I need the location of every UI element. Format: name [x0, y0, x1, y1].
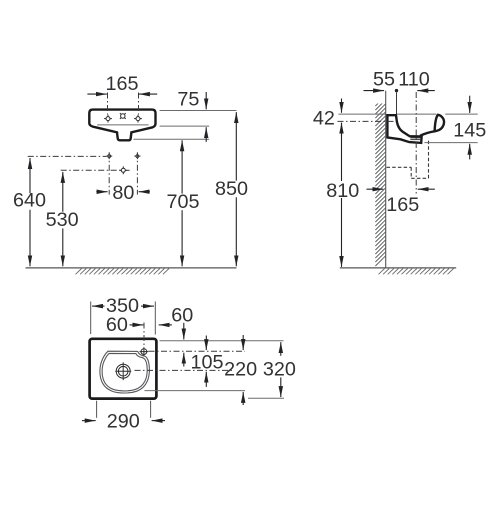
tap hole symbol: [140, 347, 149, 356]
floor line side: [340, 267, 456, 269]
tap vertical dash-dot: [143, 323, 145, 348]
tap axis dash-dot right: [149, 350, 246, 352]
bowl outer contour: [100, 351, 149, 393]
dim 80 arrows: [96, 191, 107, 193]
bottom ref line 320: [248, 397, 284, 399]
dim 165 side arrows: [367, 188, 384, 190]
top ref line segments: [338, 113, 385, 115]
drain flange lines: [410, 137, 420, 139]
dash-dot 640 level: [28, 155, 107, 157]
dim 290 arrows: [82, 420, 96, 422]
svg-text:290: 290: [107, 411, 140, 433]
fixing cross left: [106, 153, 112, 159]
dim 810 line: [341, 123, 343, 181]
dim 42 arrows: [341, 99, 343, 113]
dim 705 line: [181, 140, 183, 193]
floor hatch front: [76, 269, 170, 275]
dim 110 arrow: [417, 90, 435, 92]
dim 320 arrows: [280, 342, 282, 356]
plan square outline: [90, 339, 157, 399]
svg-text:320: 320: [263, 359, 296, 381]
hole cross left: [104, 115, 112, 123]
dim 55 arrow: [364, 90, 385, 92]
svg-text:110: 110: [398, 68, 430, 90]
hole cross right: [134, 115, 142, 123]
dim 850 line: [235, 112, 237, 181]
dash-dot 80 extension lines: [109, 152, 137, 194]
ref line tab bottom (705): [134, 138, 210, 140]
svg-text:105: 105: [190, 351, 223, 373]
drain cross front: [119, 166, 127, 174]
ref line basin bottom (75): [160, 125, 210, 127]
tap axis vertical stem: [396, 92, 398, 114]
basin profile top+interior: [386, 115, 422, 136]
dim 75 arrows: [205, 92, 207, 109]
svg-text:60: 60: [171, 305, 193, 327]
side view labels: [313, 68, 486, 216]
hidden drain dashed: [387, 138, 429, 178]
front basin inner rim line: [97, 124, 148, 126]
wall face line: [385, 91, 387, 268]
bowl inner contour: [102, 353, 147, 391]
dim 530 line: [62, 172, 64, 212]
drain axis dash-dot right: [135, 369, 235, 371]
bottom ref line 220: [145, 390, 246, 392]
dim 350 ext lines: [90, 302, 92, 335]
dim 290 ext lines: [96, 401, 98, 418]
dot terminator: [395, 89, 398, 92]
dim 145 arrows: [469, 96, 471, 113]
bottom ref line (145): [424, 142, 477, 144]
front view labels: [13, 73, 248, 231]
basin profile outer: [387, 114, 444, 143]
svg-text:80: 80: [112, 182, 134, 204]
dim 350 arrows: [92, 305, 105, 307]
plan view labels: [106, 295, 296, 433]
tap axis dash-dot horizontal: [338, 120, 395, 122]
front basin outline: [89, 110, 155, 141]
svg-text:60: 60: [106, 314, 128, 336]
svg-text:220: 220: [224, 359, 257, 381]
drain symbol: [115, 362, 131, 380]
svg-text:640: 640: [13, 190, 46, 212]
floor line front: [26, 267, 237, 269]
dim 60 (top right) arrows: [183, 323, 185, 340]
svg-text:165: 165: [105, 73, 138, 95]
svg-text:530: 530: [46, 209, 79, 231]
svg-text:850: 850: [215, 178, 248, 200]
dim 165 arrows: [87, 93, 106, 95]
svg-text:145: 145: [453, 120, 486, 142]
svg-text:75: 75: [177, 88, 199, 110]
svg-text:810: 810: [326, 180, 359, 202]
drain axis vertical dash-dot: [415, 92, 417, 194]
ref line top (850/75): [160, 110, 237, 112]
svg-text:705: 705: [166, 191, 199, 213]
dim 165 extension lines: [108, 93, 139, 115]
dash-dot 530 level: [61, 169, 121, 171]
top ref line plan: [160, 340, 284, 342]
dim 220 arrows: [242, 335, 244, 350]
hole cross middle (45deg): [120, 113, 126, 119]
svg-text:55: 55: [373, 68, 395, 90]
floor hatch side: [379, 269, 454, 275]
dim 60 (left) arrows: [130, 324, 144, 326]
wall hatch: [375, 96, 385, 266]
fixing cross right: [134, 153, 140, 159]
dim 640 line: [29, 158, 31, 193]
svg-text:165: 165: [386, 194, 419, 216]
dim 105 arrows: [205, 336, 207, 351]
svg-text:42: 42: [313, 107, 335, 129]
